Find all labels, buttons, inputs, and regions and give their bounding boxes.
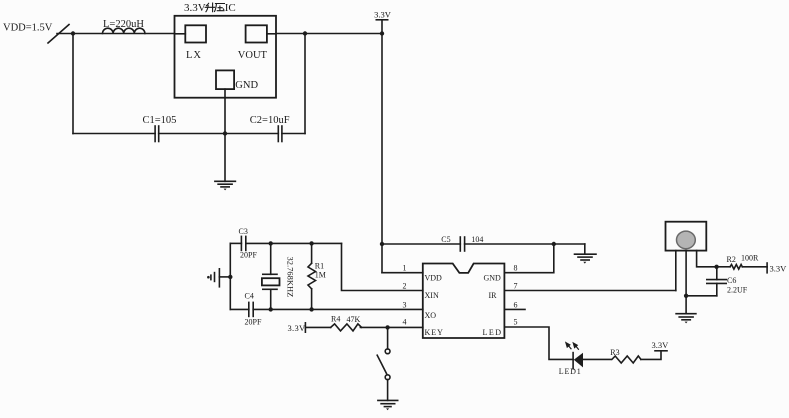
svg-text:100R: 100R [741, 254, 759, 263]
wire R2 to 3.3V [742, 266, 767, 268]
svg-text:VDD: VDD [425, 274, 443, 283]
wire top crystal rail [230, 242, 341, 244]
pin 6 stub [504, 301, 525, 310]
svg-text:KEY: KEY [425, 328, 444, 337]
wire into LX [175, 33, 186, 35]
pin 8 wire GND [504, 244, 553, 273]
capacitor C6 [686, 267, 748, 296]
3.3V terminal top [374, 9, 392, 33]
capacitor C3 [239, 227, 258, 260]
node junction at left vertical [71, 31, 75, 35]
node junction at C5 rail [380, 242, 384, 246]
ground IR module [676, 314, 696, 324]
wire R4 to KEY [360, 326, 422, 328]
module right lead [697, 251, 717, 267]
svg-text:3: 3 [403, 301, 407, 310]
resistor R2 [717, 254, 759, 270]
node junction crystal bottom [269, 307, 273, 311]
svg-text:20PF: 20PF [240, 251, 257, 260]
svg-text:C6: C6 [727, 276, 736, 285]
svg-text:3.3V: 3.3V [652, 340, 670, 350]
node junction GND stem x rail [223, 131, 227, 135]
wire R4 left [305, 326, 330, 328]
wire 3.3V long vertical [381, 34, 383, 273]
svg-text:8: 8 [514, 264, 518, 273]
capacitor C5 [441, 235, 483, 251]
svg-text:3.3V: 3.3V [288, 323, 307, 333]
wire out of VOUT [267, 33, 276, 35]
pin pad GND [216, 70, 234, 89]
capacitor C1 [143, 115, 177, 142]
boost IC U1 box [175, 16, 277, 98]
module left lead [675, 251, 677, 291]
ground left of crystal [207, 269, 230, 287]
node junction R1 bottom [309, 307, 313, 311]
pin 7 wire IR [504, 282, 675, 291]
svg-text:VDD=1.5V: VDD=1.5V [3, 23, 53, 34]
label 3.3V升压IC [184, 2, 236, 14]
svg-text:C1=105: C1=105 [143, 115, 177, 126]
node junction switch [385, 325, 389, 329]
pin 1 wire VDD [382, 272, 423, 274]
input slash terminal [48, 25, 69, 44]
svg-text:4: 4 [403, 318, 407, 327]
svg-text:3.3V: 3.3V [184, 2, 206, 14]
crystal Y1 [262, 243, 280, 309]
module middle lead [685, 251, 687, 314]
3.3V terminal at R4 [288, 323, 307, 333]
svg-text:C5: C5 [441, 235, 450, 244]
svg-text:7: 7 [514, 282, 518, 291]
svg-text:R4: R4 [331, 315, 340, 324]
ground main [215, 181, 236, 190]
node junction R2/C6 [714, 265, 718, 269]
wire XO rail [230, 308, 422, 310]
svg-text:C2=10uF: C2=10uF [250, 115, 290, 126]
svg-text:5: 5 [514, 318, 518, 327]
wire C5 rail [382, 243, 585, 245]
node junction left rail [228, 275, 232, 279]
svg-text:3.3V: 3.3V [770, 264, 788, 274]
ground at C5 rail end [575, 244, 597, 264]
svg-text:47K: 47K [347, 315, 361, 324]
svg-text:IR: IR [489, 291, 498, 300]
wire left vertical down to bottom rail [72, 34, 74, 134]
wire down to switch [387, 327, 389, 349]
3.3V terminal right [767, 263, 787, 274]
svg-text:IC: IC [225, 2, 236, 14]
svg-text:LX: LX [186, 50, 202, 61]
node junction crystal top [269, 241, 273, 245]
IC U2 box with notch [423, 264, 505, 339]
svg-text:R3: R3 [610, 348, 619, 357]
LED1 arrows [566, 343, 579, 350]
IR receiver module box [666, 222, 707, 251]
pin pad VOUT [246, 25, 267, 42]
IC U2 pin labels [425, 274, 503, 338]
resistor R3 [610, 348, 641, 363]
svg-text:3.3V: 3.3V [374, 9, 392, 19]
wire top rail from slash to boost IC [57, 33, 175, 35]
wire R3 to 3.3V [641, 351, 661, 360]
svg-text:LED: LED [483, 328, 503, 337]
node junction pin8 riser [552, 242, 556, 246]
node junction at 3.3V vertical [380, 31, 384, 35]
pin 5 wire LED [504, 318, 573, 360]
svg-text:1M: 1M [315, 271, 326, 280]
svg-text:LED1: LED1 [559, 367, 582, 376]
resistor R4 [331, 315, 362, 331]
capacitor C2 [250, 115, 290, 142]
svg-text:32.768KHZ: 32.768KHZ [286, 257, 296, 298]
wire VOUT to 3.3V node [276, 33, 382, 35]
inductor L=220uH [103, 19, 145, 34]
svg-text:2.2UF: 2.2UF [727, 286, 748, 295]
svg-text:XIN: XIN [425, 291, 439, 300]
svg-text:C4: C4 [245, 292, 254, 301]
svg-text:2: 2 [403, 282, 407, 291]
svg-text:GND: GND [235, 80, 258, 91]
module lens circle [677, 231, 696, 249]
LED1 [573, 353, 611, 369]
wire left vertical rail [229, 243, 231, 309]
svg-text:1: 1 [403, 264, 407, 273]
svg-text:6: 6 [514, 301, 518, 310]
node junction at x305 [303, 31, 307, 35]
svg-text:104: 104 [471, 235, 483, 244]
node junction C6 ground [684, 294, 688, 298]
svg-text:R1: R1 [315, 262, 324, 271]
svg-text:XO: XO [425, 311, 437, 320]
bottom rail wire [73, 133, 305, 135]
ground at switch [378, 400, 398, 410]
node junction R1 top [309, 241, 313, 245]
svg-text:VOUT: VOUT [238, 50, 268, 61]
svg-text:C3: C3 [239, 227, 248, 236]
svg-text:20PF: 20PF [245, 318, 262, 327]
wire XIN corner [342, 243, 423, 290]
wire right vertical down to bottom rail [304, 34, 306, 134]
svg-text:R2: R2 [727, 255, 736, 264]
capacitor C4 [245, 292, 262, 327]
svg-text:GND: GND [484, 274, 502, 283]
wire GND stem [224, 89, 226, 181]
pin pad LX [185, 25, 206, 42]
resistor R1 [308, 243, 326, 309]
3.3V terminal at LED [652, 340, 670, 351]
switch S1 [377, 349, 390, 401]
